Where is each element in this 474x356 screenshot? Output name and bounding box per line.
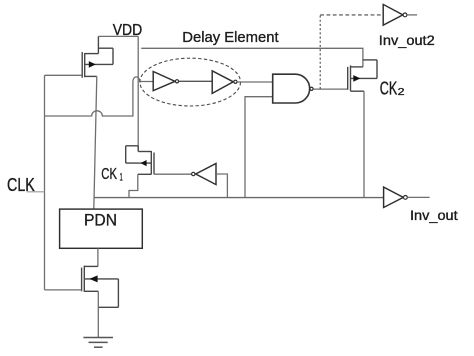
delay element dashed ellipse [140,58,241,106]
svg-text:CK: CK [101,166,117,183]
wire VDD vertical down to CK1 drain [137,36,139,151]
svg-text:Inv_out2: Inv_out2 [379,33,435,48]
wire Q4 gate lead to CLK rail [45,289,82,291]
svg-text:1: 1 [120,172,123,184]
delay rail wire to CK2 drain [141,48,363,67]
wire CLK rail vertical [44,75,46,290]
bubble of U2 [234,80,237,83]
svg-text:Delay Element: Delay Element [182,29,279,46]
wire Q1 gate lead to CLK rail [45,74,83,76]
ground [83,338,113,348]
wire CK2 source down to dynamic rail [363,91,365,197]
wire CLK branch to delay element input (with hops) [45,77,154,116]
bubble of U6 [403,13,407,17]
dashed net vertical to Inv_out2 [319,15,321,89]
inverter U5 (Inv_out buffer) [384,187,404,207]
dashed net horizontal to Inv_out2 [320,14,383,16]
wire Q4 source down to ground [97,291,99,337]
bubble of U5 [404,196,408,200]
bulk arrow of Q1 [89,61,96,68]
wire PDN bottom to Q4 drain [97,248,99,266]
wire VDD top rail [98,35,138,37]
svg-text:PDN: PDN [84,211,117,230]
bubble of U1 [175,80,178,83]
wire NAND output to CK2 gate [313,88,347,90]
wire U1 to U2 [179,80,212,82]
svg-text:2: 2 [398,86,405,98]
wire U3 input from dynamic rail [216,174,227,198]
wire NAND input 2 from dynamic rail [245,97,273,198]
svg-text:Inv_out: Inv_out [410,208,458,223]
bubble of U4 [310,87,313,90]
wire CLK label lead [27,191,45,193]
transistor Q4 (clock footer NMOS) [82,266,119,308]
wire CK1 source jog down to dynamic rail [129,174,138,197]
inverter U1 (first delay inverter) [153,72,175,91]
transistor Q3 (CK2 device) [348,60,377,91]
wire Q1 source down to PDN top (slanted) [94,76,97,209]
wire U6 output stub [407,14,417,16]
wire CK1 gate lead to inverter U3 [154,173,191,175]
inverter U2 (second delay inverter) [212,71,233,94]
inverter U6 (Inv_out2 buffer) [383,4,403,25]
nand gate U4 [273,74,310,103]
wire dynamic node rail [94,197,384,199]
bulk arrow of Q4 [89,275,97,282]
inverter U3 (feedback inverter, points left) [196,164,216,185]
transistor Q1 (top-left PMOS keeper) [82,36,113,77]
wire U2 output to NAND input 1 [237,81,272,83]
transistor Q2 (CK1 device, mirrored) [126,146,154,175]
PDN block [60,209,143,248]
bubble of U3 [192,172,195,175]
svg-text:CK: CK [380,79,398,99]
bulk arrow of Q2 [141,160,147,166]
bulk arrow of Q3 [353,75,360,82]
wire U5 output stub [407,196,429,198]
